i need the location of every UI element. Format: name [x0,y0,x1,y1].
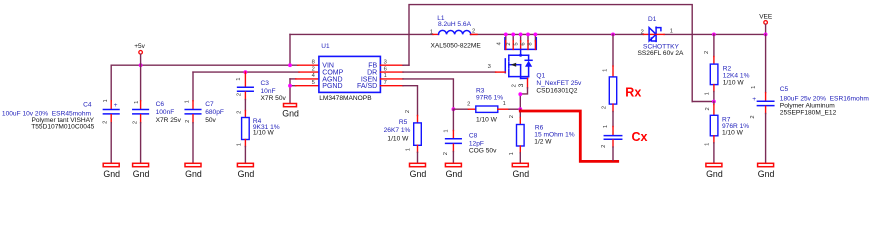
svg-text:1/10 W: 1/10 W [387,136,409,143]
svg-text:2: 2 [602,106,608,109]
svg-text:Q1: Q1 [536,73,545,80]
wire FB top loop [409,5,692,102]
wire output horizontal [664,33,766,35]
svg-text:2: 2 [512,84,518,87]
svg-text:100nF: 100nF [156,109,175,116]
resistor R2 [704,34,750,101]
svg-text:1: 1 [236,77,242,80]
ground under C4 [103,163,120,179]
pin ISEN stub / wire [380,79,453,109]
svg-text:1/10 W: 1/10 W [722,130,744,137]
svg-text:2: 2 [601,145,607,148]
svg-text:Polymer Aluminum: Polymer Aluminum [780,102,835,109]
svg-text:2: 2 [312,66,315,72]
svg-text:1: 1 [384,73,387,79]
svg-text:Gnd: Gnd [446,169,463,179]
pin VIN stub [298,64,319,66]
inductor L1 [430,15,481,50]
node divider midpoint [712,100,716,104]
node Q1 drain junctions on switch wire [504,33,537,37]
svg-text:U1: U1 [321,43,330,50]
node PGND junction [288,84,292,88]
svg-text:10nF: 10nF [261,88,276,95]
svg-text:LM3478MANOPB: LM3478MANOPB [319,95,372,102]
svg-text:T55D107M010C0045: T55D107M010C0045 [31,124,94,131]
svg-text:+: + [752,96,756,103]
pin FA/SD stub / wire to R5 [380,86,417,116]
capacitor Cx [601,112,648,161]
ground under R4 [237,163,254,179]
svg-text:R5: R5 [399,119,408,126]
wire +5v rail [111,64,298,66]
svg-text:3: 3 [488,64,491,70]
wire thick kelvin sense [520,111,617,161]
capacitor C5 [750,34,869,163]
svg-text:1: 1 [751,86,757,89]
capacitor C4 [2,65,119,163]
svg-text:COG 50v: COG 50v [469,148,497,155]
body diode [528,55,530,60]
svg-text:Gnd: Gnd [282,108,299,118]
svg-text:Rx: Rx [625,85,641,99]
svg-text:1: 1 [134,101,140,104]
svg-text:5: 5 [312,80,315,86]
svg-text:5: 5 [513,42,519,45]
svg-text:+5v: +5v [134,43,145,50]
svg-text:C6: C6 [156,101,165,108]
pin COMP stub [299,71,319,73]
svg-text:1: 1 [184,100,190,103]
svg-text:1: 1 [103,99,109,102]
svg-text:2: 2 [705,107,711,110]
ground under R6 [512,163,529,179]
capacitor C3 [236,72,286,102]
svg-text:Gnd: Gnd [512,169,529,179]
resistor R5 [384,110,422,163]
svg-text:Gnd: Gnd [758,169,775,179]
node R6 top junction [518,107,522,111]
svg-text:CSD16301Q2: CSD16301Q2 [536,87,577,94]
svg-text:1: 1 [430,29,433,35]
svg-text:6: 6 [521,42,527,45]
svg-text:1: 1 [444,129,450,132]
svg-text:1: 1 [704,143,710,146]
resistor Rx [602,34,642,111]
svg-text:12pF: 12pF [469,140,484,147]
wire COMP net [193,71,299,73]
capacitor C8 [443,109,497,163]
svg-text:2: 2 [102,121,108,124]
svg-text:2: 2 [509,115,515,118]
svg-text:Gnd: Gnd [133,169,150,179]
op-amp U1 LM3478 controller [312,43,387,102]
svg-text:Gnd: Gnd [410,169,427,179]
node C8/ISEN junction [452,107,456,111]
pin FB stub [380,64,409,66]
svg-text:C4: C4 [83,101,92,108]
drain lead [520,49,522,55]
node R2 top junction [712,33,716,37]
wire input riser to L1 [289,34,291,65]
svg-text:C7: C7 [205,101,214,108]
node +5v junction [139,63,143,67]
terminal +5v [134,43,145,65]
svg-text:1: 1 [406,148,412,151]
terminal VEE [759,13,773,34]
svg-text:2: 2 [641,30,644,36]
diode D1 schottky [638,16,685,57]
svg-text:8: 8 [528,42,534,45]
svg-text:97R6 1%: 97R6 1% [476,95,503,102]
svg-text:1: 1 [704,92,710,95]
svg-text:2: 2 [472,29,475,35]
gate plate [504,59,506,73]
node COMP/C3 junction [244,70,248,74]
svg-text:2: 2 [185,120,191,123]
svg-text:1: 1 [503,101,506,107]
source exit jog [521,77,528,79]
svg-text:1/10 W: 1/10 W [476,117,498,124]
svg-text:1: 1 [509,152,515,155]
svg-text:1: 1 [603,125,609,128]
svg-text:8.2uH 5.6A: 8.2uH 5.6A [438,21,472,28]
svg-text:D1: D1 [648,16,657,23]
node VIN junction [288,63,292,67]
svg-text:1: 1 [603,69,609,72]
svg-text:2: 2 [467,101,470,107]
body tap with arrow [509,64,521,66]
channel [508,55,510,61]
svg-text:180uF 25v 20% ESR16mohm: 180uF 25v 20% ESR16mohm [780,95,870,102]
svg-text:Gnd: Gnd [185,169,202,179]
node VEE junction [764,33,768,37]
wire switch-node horizontal [290,33,644,35]
svg-text:N_NexFET 25v: N_NexFET 25v [536,80,582,87]
svg-text:2: 2 [506,42,512,45]
svg-text:VEE: VEE [759,13,773,20]
svg-text:2: 2 [237,93,243,96]
svg-text:1: 1 [236,143,242,146]
svg-text:2: 2 [236,111,242,114]
svg-text:XAL5050-822ME: XAL5050-822ME [431,43,482,50]
svg-text:2: 2 [443,152,449,155]
svg-text:C5: C5 [780,86,789,93]
svg-text:C3: C3 [261,80,270,87]
svg-text:Gnd: Gnd [103,169,120,179]
svg-text:1/2 W: 1/2 W [534,138,552,145]
svg-text:12K4 1%: 12K4 1% [723,73,750,80]
source lead [520,65,522,79]
ground under C5 [758,163,775,179]
svg-text:8: 8 [312,59,315,65]
svg-text:25SEPF180M_E12: 25SEPF180M_E12 [780,110,837,117]
svg-text:2: 2 [405,110,411,113]
ground under C8 [445,163,462,179]
svg-text:FA/SD: FA/SD [357,83,377,90]
svg-text:2: 2 [704,51,710,54]
svg-text:3: 3 [518,83,525,87]
resistor R7 [704,102,749,164]
svg-text:X7R 25v: X7R 25v [156,117,182,124]
ground under C7 [185,163,202,179]
ground under R5 [410,163,427,179]
node Q1 source corner junction [518,92,522,96]
svg-text:SS26FL 60v 2A: SS26FL 60v 2A [638,50,685,57]
svg-text:Cx: Cx [632,130,648,144]
gate stub [496,71,506,73]
svg-text:1/10 W: 1/10 W [723,80,745,87]
ground under R7 [706,163,723,179]
svg-text:1: 1 [670,29,673,35]
ground under C6 [133,163,150,179]
ground under U1 [282,104,299,119]
svg-text:Gnd: Gnd [238,169,255,179]
drain pin header box [505,38,536,50]
capacitor C7 [184,72,224,163]
svg-text:C8: C8 [469,132,478,139]
transistor Q1 NexFET [488,34,582,109]
svg-text:2: 2 [132,121,138,124]
svg-text:680pF: 680pF [205,109,224,116]
svg-text:Gnd: Gnd [706,169,723,179]
capacitor C6 [132,65,181,163]
svg-text:X7R 50v: X7R 50v [261,95,287,102]
svg-text:2: 2 [750,115,756,118]
wire AGND/PGND to ground [290,79,319,104]
resistor R3 [453,88,520,124]
wire C3 to R4 [244,100,246,111]
pin DR stub / wire to gate [380,71,495,73]
wire FB sense to divider [692,101,714,103]
svg-text:50v: 50v [205,117,216,124]
svg-text:+: + [114,102,118,109]
resistor R4 [236,111,279,164]
svg-text:1/10 W: 1/10 W [253,130,275,137]
resistor R6 [509,109,575,163]
svg-text:26K7 1%: 26K7 1% [384,127,411,134]
svg-text:PGND: PGND [322,83,342,90]
svg-text:R3: R3 [476,88,485,95]
node snubber junction [611,33,615,37]
svg-text:R2: R2 [723,66,732,73]
